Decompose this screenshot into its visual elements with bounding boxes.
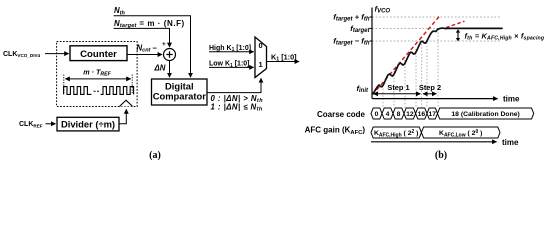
horizontal dashed line ftarget [372,27,500,29]
tick label ftarget-fth [333,37,370,47]
svg-text:Step 2: Step 2 [419,83,441,92]
svg-text:Comparator: Comparator [153,91,206,102]
coarse code cell 0 [371,108,382,119]
counter block [70,46,127,61]
adder U1 [164,49,176,61]
clock input triangle [120,100,133,106]
svg-text:17: 17 [429,111,437,118]
node deltaN label [154,64,166,73]
coarse code cell 12 [404,108,416,119]
svg-text:CLKVCO_DIV4: CLKVCO_DIV4 [3,51,41,58]
dashed block boundary box [57,42,138,107]
svg-text:Coarse code: Coarse code [317,110,366,119]
node Nth label [114,6,125,16]
svg-text:0: 0 [375,111,379,118]
wire High K1 to mux input 0 [209,51,254,53]
node CLKVCO_DIV4 label [3,51,41,58]
svg-text:1 : |ΔN| ≤ Nth: 1 : |ΔN| ≤ Nth [211,102,263,112]
coarse code cell 4 [382,108,393,119]
svg-text:18 (Calibration Done): 18 (Calibration Done) [451,111,519,118]
vertical gridline x=416 [415,49,417,108]
wire counter to adder [127,54,162,56]
tick ftarget-fth [370,40,372,42]
wire comparator select to mux [207,78,261,92]
svg-text:4: 4 [386,111,390,118]
vertical gridline x=427 [426,39,428,108]
svg-text:m · TREF: m · TREF [83,67,111,77]
vertical gridline x=383 [382,82,384,108]
vertical gridline x=405 [404,60,406,108]
svg-text:fVCO: fVCO [375,5,391,15]
coarse code cell 17 [427,108,438,119]
svg-text:finit: finit [356,84,369,94]
caption (a) [149,150,161,161]
node K1 output label [271,52,297,62]
second time label [502,138,519,147]
coarse code cell 8 [393,108,404,119]
tick label ftarget [350,24,370,34]
wire mux output K1 [267,61,300,63]
second time axis [371,141,497,143]
svg-text:ftarget − fth: ftarget − fth [333,37,370,47]
svg-text:K1 [1:0]: K1 [1:0] [271,52,297,62]
svg-text:fth = KAFC,High × fspacing: fth = KAFC,High × fspacing [465,31,545,41]
mux U2 [255,37,267,78]
wire CLKREF to Divider [46,123,56,125]
svg-text:time: time [502,138,519,147]
wire Ntarget to adder [114,28,170,47]
svg-text:time: time [503,95,520,104]
tick label finit [356,84,369,94]
svg-text:0: 0 [259,41,263,50]
vertical gridline x=438 [437,29,439,108]
label m·TREF [83,67,111,77]
wire adder to comparator [169,61,171,78]
horizontal dashed line ftarget-fth [372,40,500,42]
measurement dashed vertical left [63,75,65,95]
coarse code cell 16 [416,108,427,119]
label Step 1 [387,83,409,92]
step1 span arrow [374,93,421,95]
svg-text:Nth: Nth [114,6,125,16]
horizontal dashed line ftarget+fth [372,16,500,18]
coarse code cell 18 calibration done [438,108,534,119]
svg-text:1: 1 [259,60,263,69]
legend select=1 [211,102,263,112]
red fine trend line [446,21,465,27]
svg-text:12: 12 [406,111,414,118]
wire Nth to comparator [114,16,191,77]
svg-text:(b): (b) [435,150,447,161]
svg-text:ftarget: ftarget [350,24,370,34]
waveform clock pulses [64,87,134,95]
node Ntarget label [114,19,185,29]
svg-text:16: 16 [418,111,426,118]
vertical gridline x=421.7 [421,44,423,108]
fVCO settling curve [373,28,502,94]
label Coarse code [317,110,366,119]
axis label fVCO [375,5,391,15]
wire divider to clock triangle [119,109,126,123]
plus sign at adder top input [162,41,166,48]
svg-text:ΔN: ΔN [154,64,166,73]
caption (b) [435,150,447,161]
node CLKREF label [19,121,43,128]
vertical gridline x=394 [393,71,395,108]
svg-text:Divider (÷m): Divider (÷m) [61,119,115,130]
svg-text:(a): (a) [149,150,161,161]
svg-text:+: + [162,41,166,48]
fth annotation double arrow [456,29,460,41]
x axis time [372,98,498,100]
svg-text:ftarget + fth: ftarget + fth [333,13,370,23]
step2 span arrow [423,93,436,95]
svg-text:Counter: Counter [80,49,117,60]
tick ftarget [370,27,372,29]
tick ftarget+fth [370,16,372,18]
y axis fVCO [371,8,373,99]
label Step 2 [419,83,441,92]
AFC gain cell low [421,127,500,138]
node Low K1 label [209,61,250,69]
node High K1 label [209,45,251,53]
tick label ftarget+fth [333,13,370,23]
double arrow m·TREF span [65,78,130,80]
wire Low K1 to mux input 1 [209,66,254,68]
axis label time [503,95,520,104]
wire CLKVCO_DIV4 to Counter [45,53,69,55]
measurement dashed vertical right [131,75,133,95]
digital comparator block [152,79,208,105]
label AFC gain [305,126,366,136]
fth annotation label [465,31,545,41]
AFC gain cell high [371,127,421,138]
svg-text:Ntarget = m · (N.F): Ntarget = m · (N.F) [114,19,185,29]
divider block [57,117,119,131]
svg-text:Ncnt –: Ncnt – [137,43,158,53]
svg-text:Step 1: Step 1 [387,83,409,92]
svg-text:8: 8 [397,111,401,118]
svg-text:CLKREF: CLKREF [19,121,43,128]
legend select=0 [211,94,264,104]
svg-text:AFC gain (KAFC): AFC gain (KAFC) [305,126,366,136]
red AFC coarse trend line [377,15,441,90]
node Ncnt label with minus [137,43,158,53]
